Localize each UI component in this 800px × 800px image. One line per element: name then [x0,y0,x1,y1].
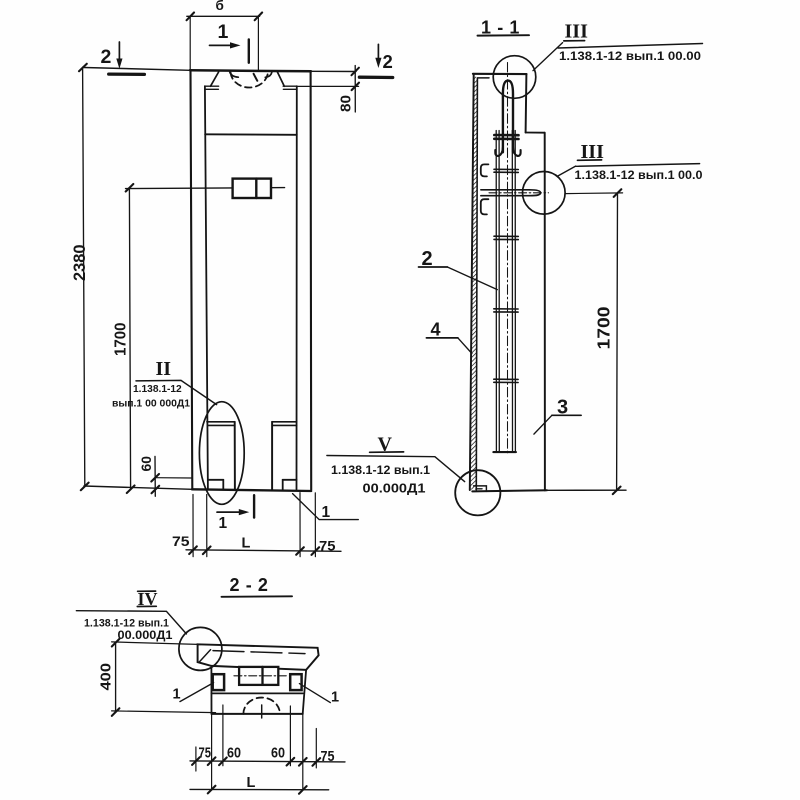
svg-text:2380: 2380 [71,245,89,282]
section 1-1: rung at 237 [494,236,518,239]
dimension b top: line, ticks, extensions [187,13,263,71]
svg-text:1: 1 [322,504,331,521]
svg-text:1 - 1: 1 - 1 [481,18,520,38]
panel elevation: bottom edge with left extension [84,486,311,491]
panel elevation: left rib inner edge / opening left edge [205,86,208,489]
label 3: shelf and leader [534,415,581,434]
svg-text:1.138.1-12: 1.138.1-12 [133,384,182,395]
section mark 1 bottom: arrow and cut bar [217,495,254,517]
dimension 60: line, ticks, extension [151,456,191,496]
svg-text:75: 75 [172,533,190,549]
section 1-1: anchor pin double line with eye [481,190,541,196]
svg-text:4: 4 [431,320,441,340]
panel elevation: right rib inner edge / opening right edge [296,86,298,489]
detail circle V bottom [455,470,500,515]
label III middle: underline, leader, shelf [558,160,700,176]
svg-text:1700: 1700 [113,323,130,357]
left opening: double top line [207,422,235,426]
svg-text:75: 75 [319,538,336,554]
svg-text:2: 2 [422,248,433,270]
section 1-1: anchor pin axis dash-dot [489,192,549,194]
section 1-1: rung at 170 [494,169,518,172]
panel elevation: right rib outer edge [310,71,313,490]
section 1-1: rebar bottom cap [493,451,516,453]
section 1-1: left rebar (double line) [496,131,499,453]
dimension L bottom: line and ticks [190,786,329,794]
left opening: right edge [234,422,236,490]
dimension 80 right: line, ticks, extension [297,66,359,113]
section mark 2 left: arrow and cut bar [109,42,145,74]
svg-text:1700: 1700 [594,306,614,349]
svg-text:80: 80 [339,95,355,112]
dimension 1700 left: vertical line and ticks [126,184,135,493]
panel elevation: small cut-line dash inside hole [254,74,258,81]
panel elevation: right solid arc at hole [265,72,272,77]
panel elevation: right top notch double line [283,86,297,89]
dimension 400: line, ticks, extensions [112,639,216,716]
detail circle III middle [523,172,566,215]
svg-text:L: L [247,775,256,791]
section 1-1: wall inner edge [476,78,477,490]
section 2-2: bottom edge [212,713,303,715]
label IV: overline, underline, shelf, leader [76,591,186,634]
detail circle III top [493,56,536,99]
svg-text:III: III [581,141,605,163]
section 2-2: corner weld detail in circle IV [200,650,211,662]
label V: underline, shelf, leader [327,452,465,482]
section mark 2 right: arrow and cut bar [359,44,392,77]
svg-text:1: 1 [331,690,339,706]
panel elevation: left notch slant [211,72,219,86]
panel elevation: right notch slant [277,72,284,86]
section 1-1: wall bracket upper [481,164,489,176]
panel elevation: left top notch double line [205,86,219,89]
panel elevation: hidden hole dashed semicircle [231,73,268,88]
svg-text:II: II [156,358,172,380]
svg-text:400: 400 [98,663,115,691]
text labels: section 2-2 [84,575,339,791]
text labels: section 1-1 [331,18,703,496]
svg-text:1.138.1-12 вып.1 00.00: 1.138.1-12 вып.1 00.00 [559,50,701,63]
svg-text:60: 60 [271,746,285,762]
right opening: corner step box [283,480,297,490]
section 1-1: lifting loop [503,81,513,153]
dimension 1700 right: extension, line, ticks [565,189,623,494]
label III top: underline, leader, shelf [533,41,703,71]
section 1-1: step to web [526,132,545,134]
section 1-1: wall foot step detail [474,486,487,492]
section 2-2: right rib square [290,674,301,690]
section mark 1 top: arrow and cut bar [210,39,249,62]
section 1-1: rung at 137 (thick) [494,135,518,139]
title 1-1 underline [478,34,530,36]
svg-text:75: 75 [321,748,335,765]
label 1 right leader [299,684,330,703]
svg-text:75: 75 [199,746,212,762]
panel elevation: left rib outer edge [191,71,193,490]
svg-text:III: III [565,21,589,43]
label II leader with shelf [136,380,217,404]
right opening: double top line [272,422,297,426]
section 1-1: wall outer edge [470,74,474,490]
panel elevation: top edge with extension line [84,68,356,72]
dimension 2380: vertical line and ticks [79,64,89,490]
svg-text:3: 3 [557,397,568,419]
section 2-2: right side edge [303,670,306,714]
svg-text:1.138.1-12 вып.1 00.0: 1.138.1-12 вып.1 00.0 [575,169,703,182]
svg-text:IV: IV [138,589,158,609]
dimension 1700 left: extension line through panel [126,188,285,189]
section 1-1: inner top ledge [478,77,490,79]
section 2-2: hidden hole dashed arc [243,698,280,714]
label 2: shelf and leader [419,267,498,290]
section 2-2: left side edge [210,666,212,714]
leader 1 to right opening step [293,494,359,520]
svg-text:00.000Д1: 00.000Д1 [118,628,173,642]
section 1-1: loop left hook [495,148,503,156]
svg-text:2: 2 [383,51,393,72]
svg-text:V: V [378,434,393,456]
section 2-2: slab outline [198,644,319,670]
svg-text:б: б [216,0,224,13]
text labels: elevation view [71,0,393,554]
left opening: corner step box [208,480,223,490]
section 1-1: top edge [473,73,527,75]
title 2-2 underline [222,595,293,598]
embedded item box with divider [233,179,271,198]
section 1-1: right rebar (double line) [512,131,515,453]
section 2-2: hole axis dash [261,705,263,718]
section 1-1: upper right edge [525,74,528,132]
section 1-1: bottom edge with extension to 1700 dim [472,490,626,491]
section 1-1: web right edge [544,133,546,491]
svg-text:2: 2 [101,46,112,68]
svg-text:2 - 2: 2 - 2 [230,575,269,595]
svg-text:60: 60 [227,746,241,762]
panel elevation: flange soffit line [205,133,297,136]
section 2-2: band bottom line [211,692,302,694]
section 2-2: slab inner dashed chamfer line [213,651,305,654]
detail circle IV [179,627,222,670]
svg-text:1: 1 [173,687,181,703]
section 1-1: wall bracket lower [481,199,489,214]
svg-text:1.138.1-12 вып.1: 1.138.1-12 вып.1 [331,464,431,477]
section 2-2: embedded box with divider [239,667,278,685]
bottom dimension 75-L-75: line, extensions, ticks [186,493,341,557]
panel elevation: left solid arc at hole [230,72,239,77]
svg-text:L: L [242,536,251,552]
svg-text:60: 60 [138,456,154,472]
svg-text:1: 1 [219,515,228,532]
section 1-1: loop right hook [513,148,521,156]
label 4: shelf and leader [426,338,472,354]
section 1-1: lifting loop axis dash-dot [507,63,509,456]
label 1 left leader [180,683,214,702]
dimension 75-60-60-75: line, extensions, ticks [190,705,345,790]
detail oval II around left opening [199,402,244,505]
right opening: left edge [271,422,273,490]
svg-text:1: 1 [218,21,229,43]
section 1-1: rung at 310 [494,309,518,312]
section 1-1: hatched wall strip [470,74,478,490]
svg-text:вып.1 00 000Д1: вып.1 00 000Д1 [112,399,190,410]
section 2-2: box axis dash-dot [234,675,288,677]
section 2-2: left rib square [213,674,224,690]
svg-text:00.000Д1: 00.000Д1 [363,481,427,496]
section 1-1: rung at 381 [494,379,518,382]
